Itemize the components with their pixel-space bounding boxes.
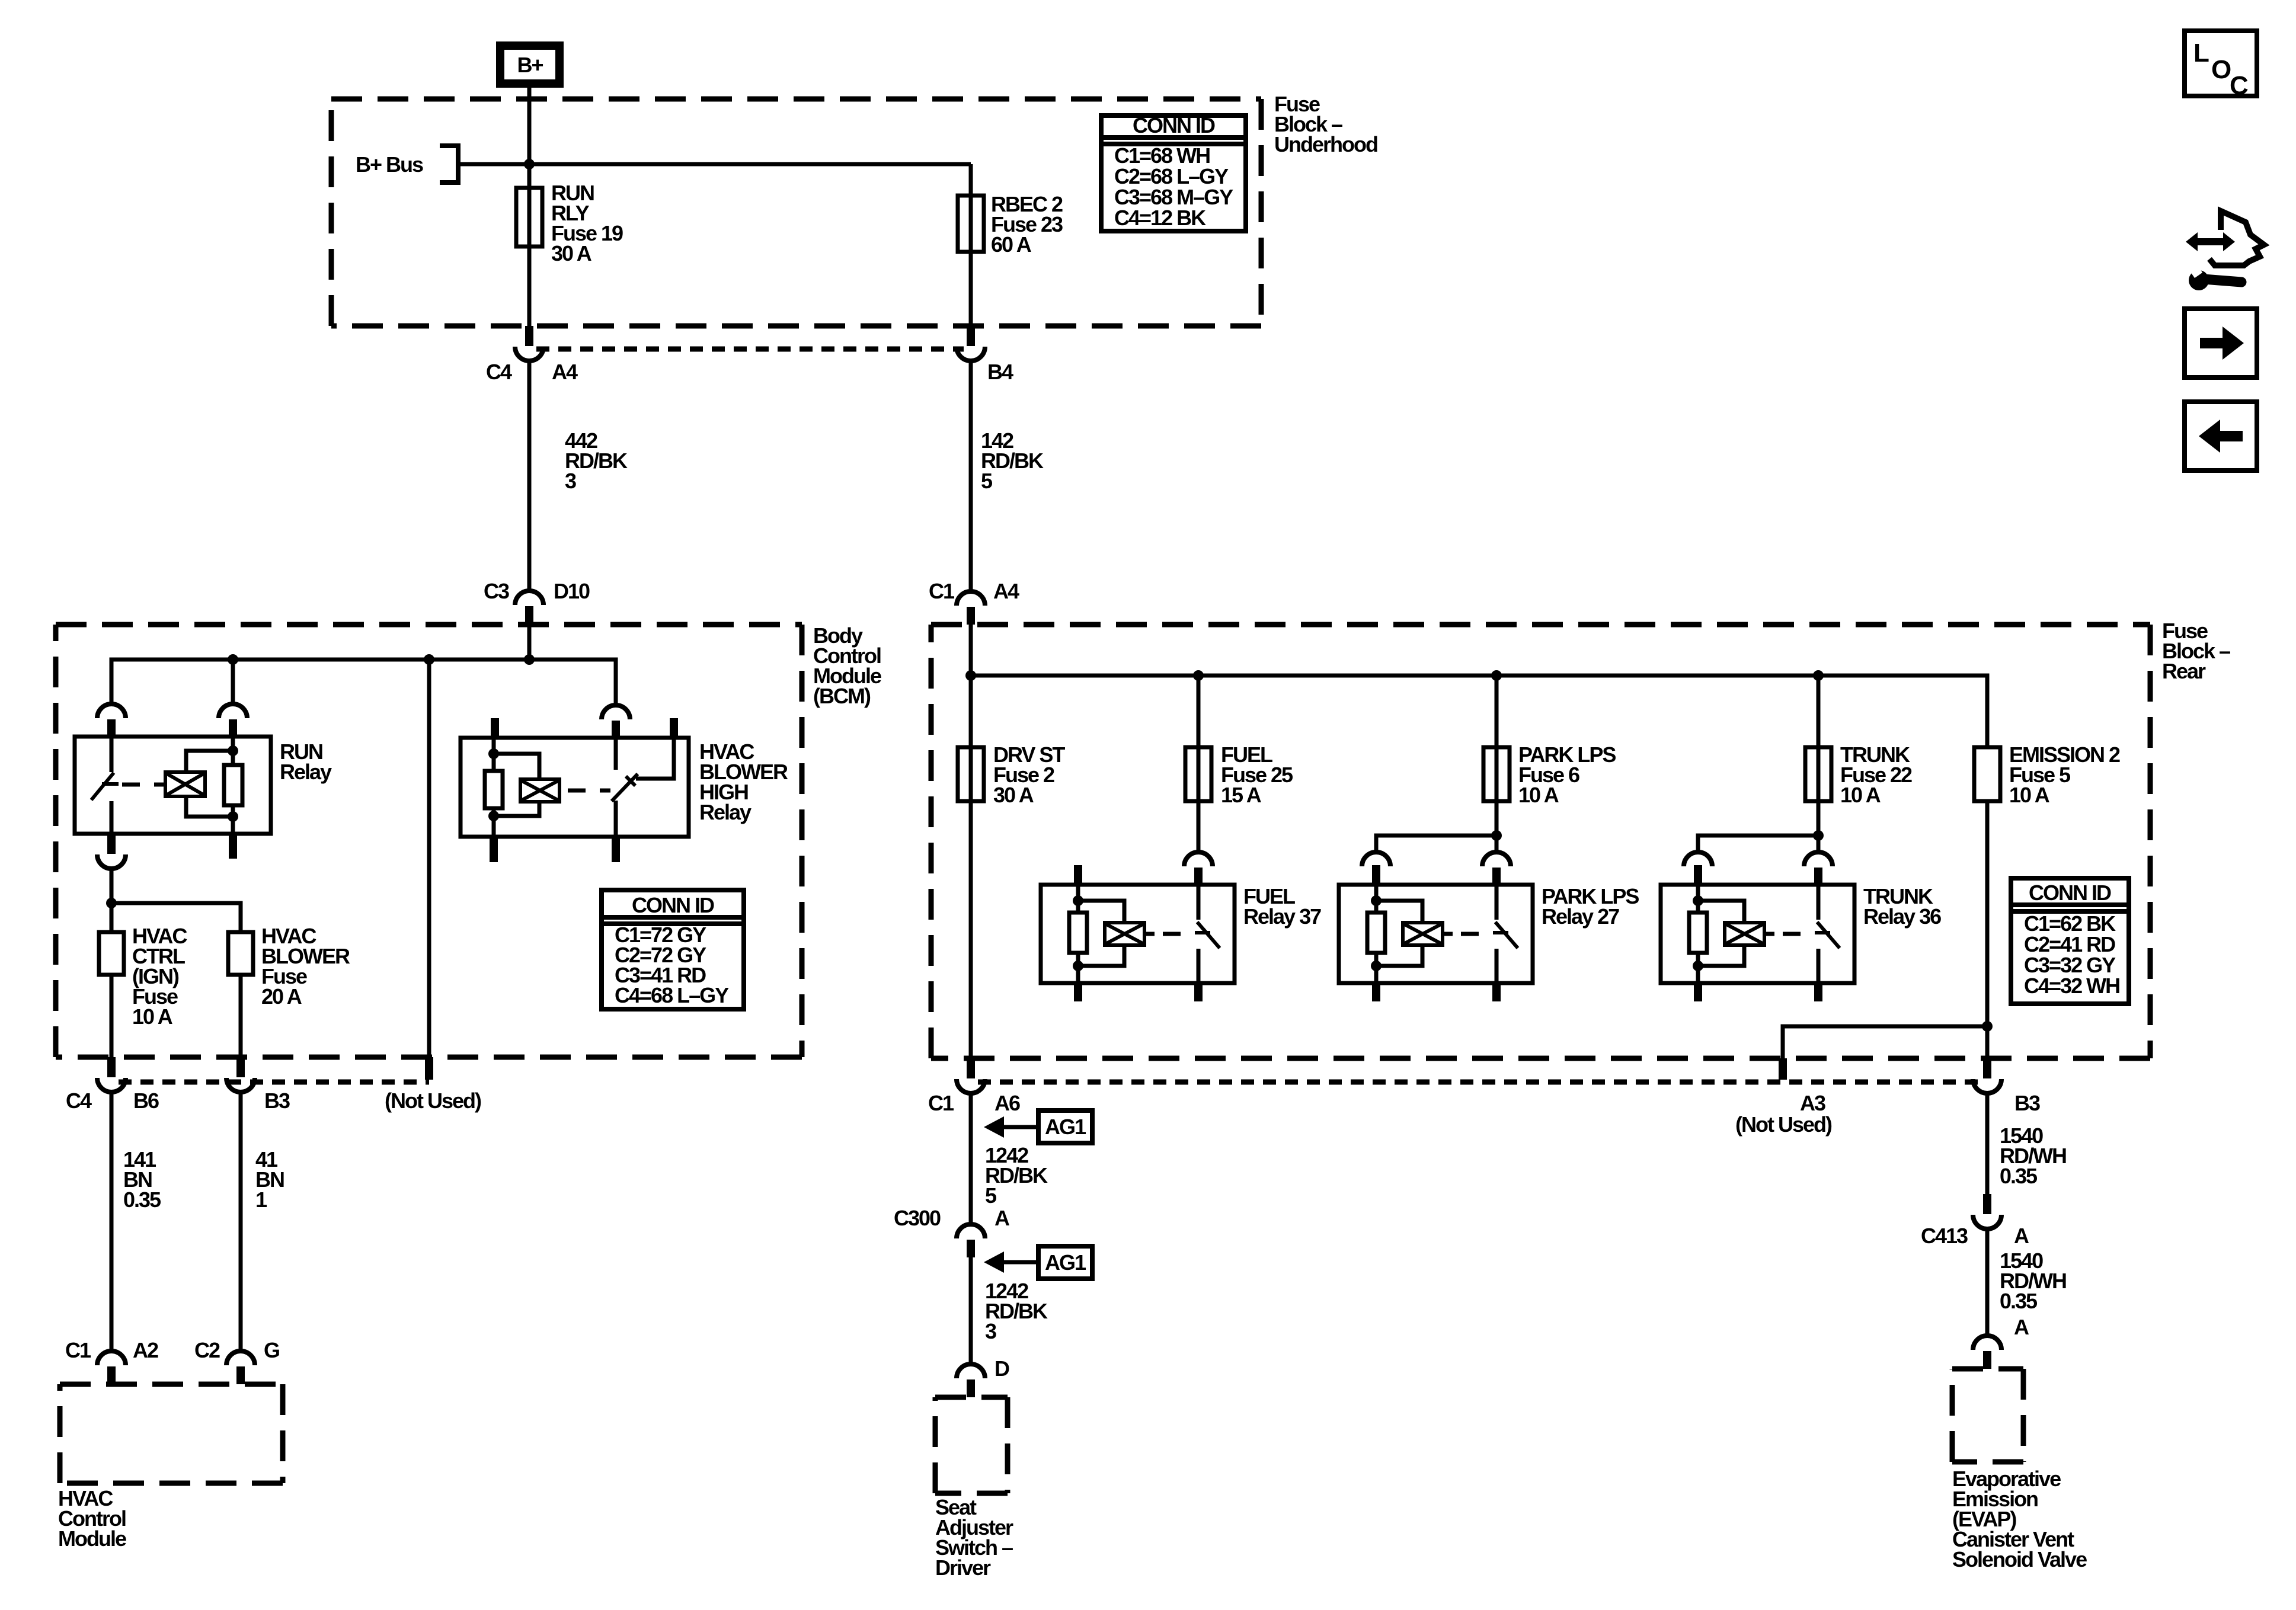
wire branch to HVAC BLOWER fuse <box>111 903 241 932</box>
svg-text:B4: B4 <box>987 360 1013 384</box>
svg-text:Rear: Rear <box>2162 659 2206 683</box>
FUEL relay switch <box>1197 885 1201 920</box>
svg-text:15 A: 15 A <box>1221 783 1262 807</box>
svg-text:5: 5 <box>981 469 993 493</box>
svg-text:A6: A6 <box>994 1091 1020 1115</box>
FUEL relay coil <box>1105 923 1144 945</box>
svg-text:D10: D10 <box>554 579 590 603</box>
wire bus drop to RUN relay pin 2 <box>231 660 235 704</box>
connector C2/G <box>226 1351 255 1365</box>
power symbol B+ <box>500 46 559 84</box>
HVAC relay dashed actuator link <box>568 789 610 793</box>
connector into PARK LPS relay switch <box>1482 852 1511 866</box>
svg-text:Underhood: Underhood <box>1274 132 1377 156</box>
PARK LPS relay coil <box>1403 923 1443 945</box>
svg-text:C413: C413 <box>1921 1224 1968 1248</box>
connector C413/A <box>1983 1194 1991 1214</box>
LOC box icon <box>2185 31 2257 96</box>
fuse RBEC 2 Fuse 23 <box>958 196 984 252</box>
junction bus x2022 <box>1193 670 1204 681</box>
junction coil/resistor top <box>228 745 238 756</box>
harness dotted line below BCM <box>119 1080 429 1085</box>
RUN relay pin stubs below <box>229 834 237 859</box>
wire 141 BN 0.35 <box>110 1092 114 1351</box>
fuse EMISSION 2 Fuse 5 10A <box>1974 747 2000 801</box>
junction HVAC fuse branch <box>106 898 117 908</box>
relay TRUNK Relay 36 box <box>1661 885 1854 983</box>
HVAC relay coil <box>520 779 559 802</box>
Body Control Module (BCM) dashed box <box>56 625 802 1057</box>
svg-text:C4=12 BK: C4=12 BK <box>1114 206 1206 230</box>
connector into HVAC BLOWER HIGH relay <box>602 705 630 719</box>
svg-text:AG1: AG1 <box>1045 1115 1086 1139</box>
svg-text:0.35: 0.35 <box>123 1188 161 1212</box>
wire jumper to TRUNK relay coil <box>1698 836 1818 852</box>
wire jumper to A3 stub <box>1783 1026 1987 1058</box>
RUN relay dashed actuator link <box>122 783 165 787</box>
RUN relay coil wiring <box>186 751 233 772</box>
svg-text:60 A: 60 A <box>991 232 1032 257</box>
TRUNK relay bottom stubs <box>1694 983 1702 1001</box>
fuse RUN RLY Fuse 19 <box>516 188 542 247</box>
svg-text:CONN ID: CONN ID <box>1133 113 1215 137</box>
svg-text:C2: C2 <box>194 1338 220 1362</box>
svg-text:C1: C1 <box>65 1338 91 1362</box>
wire to TRUNK fuse <box>1817 676 1821 852</box>
wire 1540 RD/WH 0.35 lower <box>1985 1093 1990 1194</box>
HVAC relay top stubs <box>491 718 499 738</box>
svg-text:10 A: 10 A <box>1840 783 1881 807</box>
junction BCM bus x393 <box>228 654 238 665</box>
junction TRUNK jumper <box>1813 830 1824 841</box>
svg-text:C1: C1 <box>929 579 955 603</box>
TRUNK relay coil <box>1725 923 1764 945</box>
splice AG1 arrow 2 <box>1038 1246 1092 1279</box>
wire B+ to RUN RLY fuse and onward to connector C4 <box>527 88 532 326</box>
wire 142 RD/BK 5 <box>969 361 973 591</box>
svg-text:0.35: 0.35 <box>2000 1164 2038 1188</box>
PARK LPS relay bottom stubs <box>1372 983 1380 1001</box>
svg-text:Relay 37: Relay 37 <box>1243 904 1321 929</box>
fuse PARK LPS Fuse 6 10A <box>1483 747 1510 801</box>
HVAC Control Module dashed box <box>60 1384 283 1483</box>
svg-text:B+ Bus: B+ Bus <box>356 152 423 177</box>
PARK LPS relay switch <box>1495 885 1499 920</box>
BCM internal bus <box>111 660 616 705</box>
RUN relay switch <box>110 737 114 772</box>
wires HVAC fuses down to BCM edge <box>110 975 114 1057</box>
svg-text:3: 3 <box>565 469 576 493</box>
forward arrow box icon <box>2185 309 2257 377</box>
wire from C3/D10 into BCM <box>527 625 532 660</box>
TRUNK relay dashed actuator link <box>1783 932 1815 936</box>
svg-text:C4: C4 <box>66 1089 92 1113</box>
connector C1/A4 <box>957 591 985 606</box>
connector C1/A6 <box>967 1058 975 1078</box>
svg-text:5: 5 <box>985 1183 997 1208</box>
wire 1242 RD/BK 5 <box>969 1093 973 1224</box>
svg-text:C4: C4 <box>486 360 512 384</box>
junction bus x3068 <box>1813 670 1824 681</box>
HVAC relay switch <box>614 738 618 770</box>
harness dotted line below fuse block rear <box>978 1080 1980 1085</box>
CONN ID table (rear) <box>2011 878 2129 1004</box>
svg-text:3: 3 <box>985 1319 996 1343</box>
connector C300/A <box>957 1224 985 1238</box>
svg-text:B3: B3 <box>2014 1091 2040 1115</box>
wire B+ bus horizontal <box>461 162 971 167</box>
svg-text:10 A: 10 A <box>2009 783 2050 807</box>
connector C1/A2 <box>97 1351 126 1365</box>
wire 41 BN 1 <box>239 1092 243 1351</box>
connector B3 (rear) <box>1983 1058 1991 1078</box>
svg-text:A: A <box>994 1206 1010 1230</box>
fuse block rear bus <box>971 676 1987 747</box>
HVAC relay resistor <box>492 738 496 771</box>
svg-text:1: 1 <box>255 1188 267 1212</box>
connector into TRUNK relay coil <box>1684 852 1712 866</box>
svg-text:D: D <box>994 1356 1009 1381</box>
PARK LPS relay dashed actuator link <box>1461 932 1493 936</box>
FUEL relay top-left stub <box>1074 865 1082 885</box>
junction bus x2525 <box>1491 670 1502 681</box>
connector B4 <box>967 326 975 346</box>
HVAC relay bottom stubs <box>490 837 498 862</box>
relay PARK LPS Relay 27 box <box>1339 885 1533 983</box>
wire jumper to PARK LPS relay coil <box>1376 836 1496 852</box>
svg-text:AG1: AG1 <box>1045 1250 1086 1275</box>
wire EMISSION 2 down <box>1985 801 1990 1058</box>
fuse TRUNK Fuse 22 10A <box>1805 747 1831 801</box>
RUN relay resistor <box>231 737 235 765</box>
svg-text:B+: B+ <box>517 53 543 77</box>
junction PARK LPS jumper <box>1491 830 1502 841</box>
Fuse Block - Rear dashed box <box>931 625 2150 1058</box>
connector C4/B6 <box>107 1057 116 1077</box>
svg-text:O: O <box>2211 55 2231 84</box>
svg-text:(Not Used): (Not Used) <box>1735 1112 1832 1137</box>
Fuse Block - Underhood dashed box <box>331 99 1261 326</box>
junction on B+ bus <box>524 159 535 169</box>
junction BCM bus x724 <box>424 654 434 665</box>
svg-text:Relay 27: Relay 27 <box>1542 904 1619 929</box>
car diagnostic icon car outline <box>2209 211 2264 265</box>
TRUNK relay top-left stub <box>1694 865 1702 885</box>
svg-text:10 A: 10 A <box>132 1004 173 1029</box>
svg-text:Solenoid Valve: Solenoid Valve <box>1952 1547 2087 1571</box>
svg-text:A4: A4 <box>993 579 1019 603</box>
svg-text:C300: C300 <box>894 1206 941 1230</box>
svg-text:A4: A4 <box>552 360 578 384</box>
wire to FUEL fuse <box>1197 676 1201 852</box>
svg-text:(BCM): (BCM) <box>813 684 871 708</box>
svg-text:CONN ID: CONN ID <box>632 893 714 917</box>
wire bus down to RBEC 2 fuse <box>969 164 973 326</box>
connector into FUEL relay switch <box>1184 852 1213 866</box>
junction BCM bus x893 <box>524 654 535 665</box>
connector into PARK LPS relay coil <box>1362 852 1390 866</box>
splice AG1 arrow 1 <box>1038 1110 1092 1143</box>
back arrow box icon <box>2185 402 2257 470</box>
svg-text:C4=32 WH: C4=32 WH <box>2024 974 2119 998</box>
relay FUEL Relay 37 box <box>1041 885 1235 983</box>
svg-text:10 A: 10 A <box>1518 783 1559 807</box>
fuse HVAC CTRL (IGN) Fuse 10A <box>99 932 124 975</box>
svg-text:0.35: 0.35 <box>2000 1289 2038 1313</box>
svg-text:B6: B6 <box>133 1089 159 1113</box>
svg-text:Driver: Driver <box>935 1555 991 1580</box>
PARK LPS relay resistor <box>1374 885 1379 913</box>
connector B3 (BCM) <box>236 1057 245 1077</box>
svg-text:CONN ID: CONN ID <box>2029 881 2111 905</box>
svg-text:A: A <box>2014 1315 2029 1339</box>
svg-text:A3: A3 <box>1800 1091 1825 1115</box>
wire (Not Used) drop <box>427 660 431 1057</box>
CONN ID table (BCM) <box>602 890 744 1009</box>
svg-text:A: A <box>2014 1224 2029 1248</box>
svg-text:(Not Used): (Not Used) <box>385 1089 481 1113</box>
svg-text:C3: C3 <box>484 579 509 603</box>
node B+ Bus bracket <box>440 146 458 183</box>
junction coil/resistor bottom <box>228 811 238 822</box>
RUN relay coil <box>165 772 205 796</box>
car diagnostic icon double arrow <box>2186 232 2235 251</box>
Seat Adjuster Switch dashed box <box>935 1397 1008 1493</box>
FUEL relay resistor <box>1076 885 1080 913</box>
wire to PARK LPS fuse <box>1495 676 1499 852</box>
wire to DRV ST fuse <box>969 676 973 1058</box>
fuse FUEL Fuse 25 15A <box>1185 747 1211 801</box>
svg-text:30 A: 30 A <box>993 783 1034 807</box>
car diagnostic icon wrench <box>2189 270 2209 290</box>
wire 442 RD/BK 3 <box>527 361 532 591</box>
svg-text:30 A: 30 A <box>551 241 592 265</box>
svg-text:C: C <box>2230 71 2248 100</box>
svg-text:A2: A2 <box>133 1338 158 1362</box>
svg-text:Relay 36: Relay 36 <box>1863 904 1941 929</box>
connector D <box>957 1364 985 1378</box>
wire RUN relay to HVAC fuses <box>110 869 114 932</box>
harness dotted line under fuse block underhood <box>536 347 964 352</box>
FUEL relay dashed actuator link <box>1163 932 1195 936</box>
PARK LPS relay top-left stub <box>1372 865 1380 885</box>
svg-text:C1: C1 <box>928 1091 954 1115</box>
svg-text:Module: Module <box>58 1526 126 1551</box>
FUEL relay bottom stubs <box>1074 983 1082 1001</box>
wire 1242 RD/BK 3 <box>969 1257 973 1364</box>
svg-text:20 A: 20 A <box>261 984 302 1009</box>
svg-text:B3: B3 <box>264 1089 290 1113</box>
wire from C1/A4 into fuse block rear <box>969 625 973 676</box>
fuse DRV ST Fuse 2 30A <box>958 747 984 801</box>
svg-text:C4=68 L–GY: C4=68 L–GY <box>615 983 729 1007</box>
relay HVAC BLOWER HIGH box <box>461 738 689 837</box>
svg-text:G: G <box>264 1338 279 1362</box>
connector C3/D10 <box>515 591 543 605</box>
relay RUN Relay box <box>75 737 271 834</box>
junction EMISSION jumper <box>1982 1021 1993 1032</box>
connector into RUN relay pin 1 <box>97 704 126 718</box>
connector into RUN relay pin 2 <box>219 704 247 718</box>
connector into TRUNK relay switch <box>1804 852 1833 866</box>
junction bus x1638 <box>965 670 976 681</box>
svg-text:Relay: Relay <box>280 760 332 784</box>
TRUNK relay resistor <box>1696 885 1700 913</box>
connector C4/A4 <box>525 326 533 346</box>
fuse HVAC BLOWER Fuse 20A <box>228 932 253 975</box>
EVAP Canister Vent Solenoid Valve dashed box <box>1952 1369 2023 1462</box>
CONN ID table (underhood) <box>1101 116 1246 231</box>
svg-text:L: L <box>2193 39 2209 68</box>
connector below RUN relay pin <box>107 834 116 854</box>
svg-text:Relay: Relay <box>699 800 752 824</box>
TRUNK relay switch <box>1817 885 1821 920</box>
connector A into EVAP valve <box>1973 1336 2001 1350</box>
